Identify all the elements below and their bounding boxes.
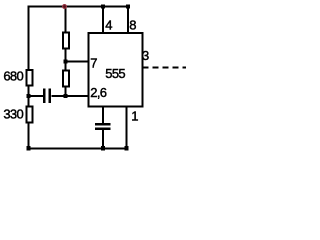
wire pin 1 drop [126, 107, 128, 149]
wire pin 7 horizontal [66, 61, 89, 63]
node pin8 rail junction [126, 4, 130, 8]
wire pin 3 output dashed [143, 67, 187, 69]
node R1/R4/C1 junction [26, 94, 30, 98]
wire left branch vertical [28, 6, 30, 149]
node ground left corner [26, 146, 30, 150]
resistor R2 [63, 33, 69, 49]
node pin4 rail junction [101, 4, 105, 8]
node supply red junction [62, 4, 67, 9]
svg-text:555: 555 [105, 66, 125, 81]
svg-text:4: 4 [105, 18, 112, 33]
wire pin 8 drop [127, 7, 129, 34]
wire top supply rail [28, 6, 129, 8]
wire capacitor C1 right lead [52, 95, 89, 97]
resistor R4 330 [27, 107, 33, 123]
node C2 ground junction [101, 146, 105, 150]
wire R2/R3 branch vertical [65, 7, 67, 97]
svg-text:680: 680 [3, 69, 23, 84]
resistor R3 [63, 71, 69, 87]
svg-text:7: 7 [90, 56, 97, 71]
wire discharge/threshold row to pin 2,6 [29, 95, 44, 97]
wire bottom ground rail [28, 148, 129, 150]
capacitor C1 plates [43, 89, 46, 104]
capacitor C2 plates [95, 123, 111, 126]
node pin1 ground junction [124, 146, 128, 150]
svg-text:330: 330 [3, 107, 23, 122]
svg-text:8: 8 [129, 18, 136, 33]
svg-text:2,6: 2,6 [90, 85, 106, 100]
svg-text:1: 1 [131, 109, 138, 124]
svg-text:3: 3 [142, 48, 149, 63]
wire C2 branch upper [102, 107, 104, 124]
op-amp U1 555 IC body [89, 33, 143, 107]
resistor R1 680 [27, 70, 33, 86]
node pin7 junction [63, 59, 67, 63]
node R3/C1 wire junction [63, 94, 67, 98]
wire C2 branch lower [102, 130, 104, 148]
wire pin 4 drop [102, 7, 104, 34]
